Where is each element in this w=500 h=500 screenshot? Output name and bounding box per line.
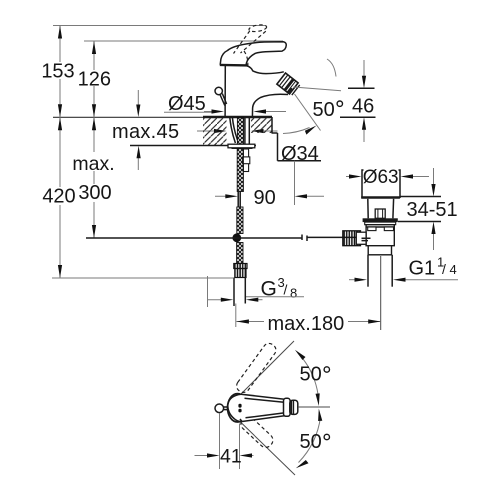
svg-text:50: 50 bbox=[300, 364, 322, 386]
node dim D34 arrows at hole bbox=[197, 129, 278, 133]
svg-text:50: 50 bbox=[300, 431, 322, 453]
deck hatched section right block with step bbox=[251, 117, 278, 133]
G3/8 hose nut bbox=[234, 264, 247, 278]
wire datum line deck top left bbox=[53, 116, 204, 118]
node dim 34-51 bbox=[398, 168, 458, 250]
svg-text:50: 50 bbox=[313, 99, 335, 121]
wire extension to max180 bbox=[235, 304, 237, 328]
wire extension line y=41 bbox=[84, 40, 283, 42]
mounting nut under deck bbox=[228, 144, 255, 148]
wire 420 bottom line y=278 bbox=[52, 277, 233, 279]
node dim 41 bbox=[195, 414, 254, 470]
svg-text:/: / bbox=[442, 261, 446, 277]
hose end junction dot bbox=[232, 233, 241, 242]
node dim max.45 deck thickness bbox=[112, 90, 179, 170]
svg-text:41: 41 bbox=[220, 446, 242, 468]
svg-text:max.180: max.180 bbox=[268, 313, 345, 335]
wire supply line y=238 bbox=[86, 235, 356, 242]
braided hose below nut bbox=[237, 149, 243, 192]
waste lift button bbox=[375, 209, 385, 218]
svg-text:46: 46 bbox=[352, 96, 374, 118]
svg-text:90: 90 bbox=[254, 187, 276, 209]
waste flange bbox=[363, 218, 398, 222]
node label G1 1/4 bbox=[349, 255, 458, 282]
pop-up waste assembly bbox=[343, 170, 400, 330]
lever handle side view bbox=[220, 42, 286, 66]
top view: 50 deg lower diagonal bbox=[241, 423, 295, 476]
svg-text:G1: G1 bbox=[409, 258, 436, 280]
node dim 420 bbox=[42, 117, 77, 278]
svg-text:126: 126 bbox=[78, 68, 111, 90]
waste center line bbox=[380, 256, 382, 330]
svg-text:153: 153 bbox=[41, 61, 74, 83]
waste neck bbox=[367, 199, 369, 219]
aerator mousseur bbox=[277, 73, 300, 95]
waste lower box bbox=[368, 246, 391, 255]
waste body bbox=[366, 225, 394, 246]
svg-text:420: 420 bbox=[42, 186, 75, 208]
deck hatched section left block bbox=[130, 117, 272, 146]
hose middle tube bbox=[238, 192, 240, 208]
node label 50 deg lower bbox=[300, 431, 330, 453]
wire top extension line y=25 bbox=[53, 25, 266, 27]
waste top cap bbox=[362, 170, 400, 197]
svg-text:4: 4 bbox=[450, 262, 457, 277]
top view: dashed lever rotated down bbox=[238, 414, 275, 450]
svg-text:max.: max. bbox=[72, 153, 114, 175]
waste adjusting knob bbox=[343, 231, 361, 246]
braided hose lower bbox=[237, 207, 243, 234]
svg-text:300: 300 bbox=[78, 182, 111, 204]
top view: 50 deg upper diagonal bbox=[240, 341, 295, 396]
svg-text:max.45: max.45 bbox=[112, 121, 179, 143]
svg-text:34-51: 34-51 bbox=[407, 199, 458, 221]
svg-text:/: / bbox=[284, 282, 288, 298]
node label D34 bbox=[278, 133, 322, 165]
top view: pop-up rod circle bbox=[215, 404, 228, 413]
flexible hoses through deck bbox=[230, 117, 250, 144]
node dim 126 bbox=[78, 41, 111, 117]
top view: dashed lever rotated up bbox=[234, 341, 278, 395]
braided hose below junction bbox=[237, 243, 243, 264]
top view: horizontal reference line bbox=[298, 406, 330, 408]
svg-text:8: 8 bbox=[290, 286, 297, 301]
top view: lower 50 deg arc bbox=[296, 409, 323, 469]
node dim 153 bbox=[41, 26, 77, 118]
pop-up rod knob bbox=[215, 87, 227, 105]
faucet body dome bbox=[225, 66, 288, 118]
top view: lever plan bbox=[228, 394, 298, 421]
node dim 90 bbox=[215, 161, 324, 209]
top view: upper 50 deg arc bbox=[295, 350, 320, 406]
G3/8 threaded tail bbox=[234, 278, 245, 307]
top view: body dome bbox=[228, 394, 248, 422]
node label G3/8 bbox=[208, 275, 305, 307]
waste tail pipe bbox=[367, 255, 369, 287]
node dim D63 bbox=[346, 167, 429, 188]
node dim max.180 bbox=[236, 313, 380, 335]
svg-text:Ø63: Ø63 bbox=[363, 167, 399, 188]
node dim 300 with max. bbox=[69, 117, 117, 238]
svg-text:Ø34: Ø34 bbox=[281, 143, 319, 165]
node 50 deg spray annotation bbox=[283, 94, 342, 135]
svg-text:Ø45: Ø45 bbox=[168, 93, 206, 115]
node label D45 with leader bbox=[164, 93, 286, 115]
node dim 46 with 50 deg spray angle bbox=[294, 59, 376, 142]
node label 50 deg upper bbox=[300, 364, 330, 386]
lever raised position dashed bbox=[234, 24, 268, 67]
threaded stud bbox=[243, 149, 250, 172]
